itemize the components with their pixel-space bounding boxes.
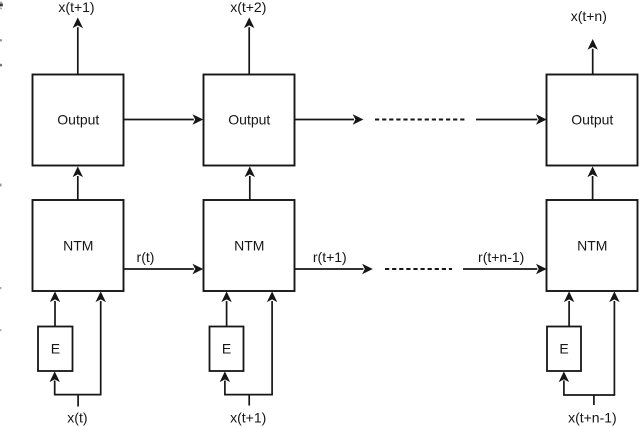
svg-text:Output: Output bbox=[228, 111, 270, 127]
block E2 bbox=[210, 327, 244, 372]
svg-text:E: E bbox=[222, 341, 231, 357]
block Output3 bbox=[547, 75, 638, 166]
arrow r(t+1) NTM2 to dashed bbox=[295, 264, 373, 274]
block Output2 bbox=[204, 75, 295, 166]
left margin clipped glyph fragment y40 bbox=[0, 39, 2, 41]
left margin clipped glyph fragment y65 bbox=[0, 64, 2, 67]
svg-text:E: E bbox=[51, 341, 60, 357]
svg-text:r(t+n-1): r(t+n-1) bbox=[478, 249, 524, 265]
svg-text:NTM: NTM bbox=[234, 237, 264, 253]
svg-text:x(t+n-1): x(t+n-1) bbox=[568, 410, 617, 426]
block E1 bbox=[38, 327, 73, 372]
svg-text:x(t+1): x(t+1) bbox=[58, 0, 94, 15]
arrow x(t+n-1) to NTM3 bbox=[609, 291, 619, 395]
svg-text:x(t+n): x(t+n) bbox=[571, 8, 607, 24]
arrow NTM1 to Output1 bbox=[73, 166, 83, 200]
arrow r(t) NTM1 to NTM2 bbox=[124, 264, 203, 274]
wire x(t) stub bbox=[77, 395, 79, 407]
label x(t+1) bottom bbox=[230, 410, 266, 426]
label x(t+n) top bbox=[571, 8, 607, 24]
block NTM1 bbox=[33, 200, 124, 291]
wire x(t+n-1) horizontal bbox=[563, 394, 615, 396]
block NTM3 bbox=[547, 200, 638, 291]
left margin clipped glyph fragment y330 bbox=[0, 329, 1, 331]
arrow x(t+1) to NTM2 bbox=[267, 291, 277, 394]
svg-text:r(t): r(t) bbox=[137, 249, 155, 265]
block Output1 bbox=[33, 75, 124, 166]
arrow NTM2 to Output2 bbox=[245, 166, 255, 200]
svg-text:E: E bbox=[559, 341, 568, 357]
svg-text:r(t+1): r(t+1) bbox=[313, 249, 347, 265]
arrow x(t) to E1 bbox=[50, 371, 60, 394]
svg-text:Output: Output bbox=[571, 111, 613, 127]
svg-text:x(t+2): x(t+2) bbox=[230, 0, 266, 15]
left margin clipped glyph fragment y288 bbox=[0, 287, 1, 289]
arrow E2 to NTM2 bbox=[221, 291, 231, 326]
dashed wire ntm row bbox=[385, 268, 452, 270]
arrow r(t+n-1) dashed to NTM3 bbox=[463, 264, 547, 274]
arrow E1 to NTM1 bbox=[50, 291, 60, 326]
svg-text:NTM: NTM bbox=[577, 237, 607, 253]
wire x(t+1) stub bbox=[248, 395, 250, 406]
arrow Output1 to x(t+1) bbox=[73, 17, 83, 74]
label x(t) bbox=[67, 410, 87, 426]
label r(t) bbox=[137, 249, 155, 265]
wire x(t+1) horizontal bbox=[224, 394, 273, 396]
svg-text:NTM: NTM bbox=[63, 237, 93, 253]
block E3 bbox=[547, 327, 581, 372]
arrow x(t+1) to E2 bbox=[220, 371, 230, 394]
left margin clipped glyph fragment y185 bbox=[0, 184, 2, 187]
label r(t+1) bbox=[313, 249, 347, 265]
label x(t+2) top bbox=[230, 0, 266, 15]
dashed wire output row bbox=[375, 119, 467, 121]
label x(t+n-1) bottom bbox=[568, 410, 617, 426]
svg-text:x(t): x(t) bbox=[67, 410, 87, 426]
arrow x(t+n-1) to E3 bbox=[559, 371, 569, 395]
left margin clipped glyph fragment top bbox=[0, 2, 3, 10]
wire x(t) horizontal bbox=[54, 394, 102, 396]
arrow E3 to NTM3 bbox=[564, 291, 574, 326]
wire x(t+n-1) stub bbox=[593, 395, 595, 405]
arrow Output2 to x(t+2) bbox=[244, 17, 254, 74]
arrow dashed to Output3 bbox=[476, 114, 547, 124]
svg-text:Output: Output bbox=[57, 111, 99, 127]
block NTM2 bbox=[204, 200, 295, 291]
arrow Output3 to x(t+n) bbox=[588, 39, 598, 75]
arrow Output1 to Output2 bbox=[124, 114, 203, 124]
svg-text:x(t+1): x(t+1) bbox=[230, 410, 266, 426]
label x(t+1) top bbox=[58, 0, 94, 15]
arrow NTM3 to Output3 bbox=[587, 166, 597, 200]
label r(t+n-1) bbox=[478, 249, 524, 265]
arrow x(t) to NTM1 bbox=[96, 291, 106, 394]
arrow Output2 to dashed bbox=[295, 114, 364, 124]
